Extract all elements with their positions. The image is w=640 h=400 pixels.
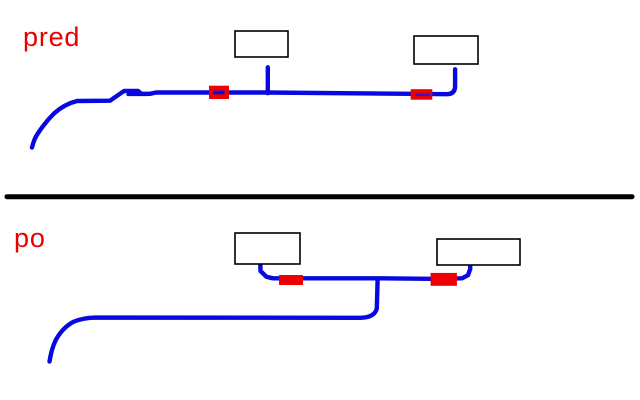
label pred (top section title) — [23, 24, 80, 51]
wire dash through R2 — [415, 94, 431, 97]
wire: bottom section lower scribble wire — [50, 280, 378, 362]
box B3 (bottom-left empty box) — [235, 233, 300, 264]
box B2 (top-right empty box) — [414, 36, 478, 64]
wire dash through R1 — [213, 91, 224, 95]
box B4 (bottom-right empty box) — [437, 239, 520, 265]
wire: top section main scribble wire — [32, 69, 455, 147]
component R1 (red block on top wire) — [209, 86, 229, 99]
component R4 (red block on bottom wire, right) — [431, 273, 457, 286]
separator line between sections — [7, 194, 632, 199]
box B1 (top-left empty box) — [235, 31, 288, 57]
wire: overlap scribble stroke on top wire near x=130 — [128, 93, 148, 96]
component R2 (red block on top wire, right) — [411, 89, 433, 100]
wire: vertical stub below box B1 — [266, 67, 270, 93]
component R3 (red block on bottom wire, left) — [279, 275, 303, 285]
label po (bottom section title) — [14, 225, 46, 252]
wire: bottom section upper wire with stubs to boxes — [260, 264, 470, 279]
